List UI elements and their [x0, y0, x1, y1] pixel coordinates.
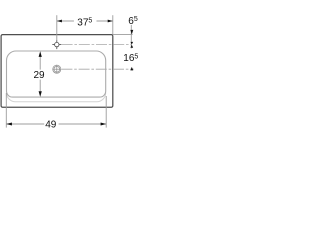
tap hole symbol	[52, 40, 61, 49]
basin bowl opening	[7, 51, 106, 97]
svg-text:29: 29	[34, 70, 46, 81]
extension and dimension lines	[6, 15, 132, 127]
svg-text:49: 49	[45, 119, 57, 130]
dimension arrowheads	[6, 20, 133, 126]
dimension labels	[34, 16, 139, 130]
basin outer rim	[1, 35, 113, 108]
centrelines (tap hole and drain)	[61, 45, 133, 70]
basin inner front wall line	[7, 93, 106, 102]
drain hole symbol	[53, 65, 62, 74]
